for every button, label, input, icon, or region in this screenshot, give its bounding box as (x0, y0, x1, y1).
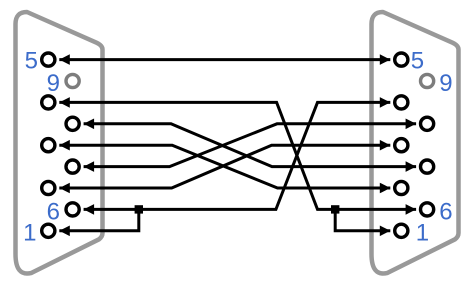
svg-text:5: 5 (411, 48, 424, 75)
svg-text:9: 9 (47, 70, 60, 97)
svg-text:1: 1 (23, 220, 36, 247)
svg-text:6: 6 (47, 198, 60, 225)
svg-text:6: 6 (439, 198, 452, 225)
svg-text:9: 9 (439, 70, 452, 97)
svg-text:1: 1 (416, 220, 429, 247)
svg-text:5: 5 (25, 48, 38, 75)
